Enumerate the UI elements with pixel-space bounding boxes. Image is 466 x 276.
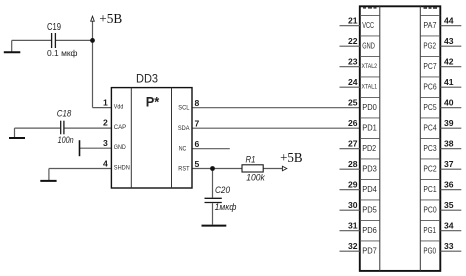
svg-text:PG2: PG2 [423,41,436,50]
svg-text:PC6: PC6 [423,82,437,91]
svg-text:PD1: PD1 [362,123,377,132]
svg-text:CAP: CAP [114,124,126,131]
svg-text:44: 44 [444,16,454,26]
svg-text:37: 37 [444,159,454,169]
svg-text:+5В: +5В [280,150,303,165]
svg-text:28: 28 [348,159,358,169]
svg-text:32: 32 [348,241,358,251]
svg-text:C19: C19 [47,22,61,33]
svg-text:Vdd: Vdd [114,103,124,110]
svg-text:41: 41 [444,77,454,87]
svg-text:42: 42 [444,57,454,67]
svg-text:SCL: SCL [178,105,190,112]
svg-text:SHDN: SHDN [114,164,130,171]
svg-text:8: 8 [195,98,200,108]
svg-text:5: 5 [195,159,200,169]
svg-text:22: 22 [348,36,358,46]
svg-text:1мкф: 1мкф [215,202,237,213]
svg-text:NC: NC [179,146,187,153]
svg-text:C20: C20 [215,185,231,196]
svg-text:29: 29 [348,180,358,190]
svg-text:PC0: PC0 [423,205,437,214]
svg-text:24: 24 [348,77,358,87]
svg-text:26: 26 [348,118,358,128]
svg-text:31: 31 [348,221,358,231]
svg-text:GND: GND [362,41,375,50]
svg-text:GND: GND [114,144,126,151]
svg-text:36: 36 [444,180,454,190]
svg-text:PC1: PC1 [423,185,437,194]
svg-text:PA7: PA7 [423,21,437,30]
svg-text:PD7: PD7 [362,246,377,255]
svg-text:0.1 мкф: 0.1 мкф [47,49,78,58]
svg-text:21: 21 [348,16,358,26]
svg-text:100k: 100k [246,173,266,184]
svg-text:PD0: PD0 [362,103,377,112]
svg-text:7: 7 [195,119,200,129]
svg-text:30: 30 [348,200,358,210]
svg-text:33: 33 [444,241,454,251]
svg-text:PC7: PC7 [423,62,437,71]
svg-text:PC5: PC5 [423,103,437,112]
svg-text:43: 43 [444,36,454,46]
svg-text:27: 27 [348,139,358,149]
svg-text:R1: R1 [246,155,256,166]
svg-text:PD5: PD5 [362,205,377,214]
svg-text:PD4: PD4 [362,185,377,194]
svg-text:2: 2 [103,118,108,128]
svg-text:34: 34 [444,221,454,231]
svg-text:PD3: PD3 [362,164,377,173]
svg-text:3: 3 [103,138,108,148]
svg-text:PC4: PC4 [423,123,437,132]
svg-text:VCC: VCC [362,21,374,30]
svg-text:23: 23 [348,57,358,67]
svg-text:DD3: DD3 [136,72,158,86]
svg-text:SDA: SDA [178,125,190,132]
svg-text:39: 39 [444,118,454,128]
svg-text:35: 35 [444,200,454,210]
svg-text:P*: P* [146,93,160,109]
svg-text:4: 4 [103,158,108,168]
svg-text:XTAL1: XTAL1 [362,83,378,90]
svg-text:25: 25 [348,98,358,108]
svg-text:40: 40 [444,98,454,108]
svg-text:PG1: PG1 [423,226,436,235]
svg-text:RST: RST [178,166,189,173]
svg-text:PD2: PD2 [362,144,376,153]
svg-text:1: 1 [103,97,108,107]
svg-text:PC3: PC3 [423,144,437,153]
svg-text:XTAL2: XTAL2 [362,63,378,70]
svg-text:PD6: PD6 [362,226,377,235]
svg-text:100n: 100n [58,135,74,146]
svg-text:+5В: +5В [99,11,122,26]
svg-text:C18: C18 [57,108,72,119]
svg-text:38: 38 [444,139,454,149]
svg-text:PG0: PG0 [423,246,436,255]
svg-text:PC2: PC2 [423,164,437,173]
svg-text:6: 6 [195,139,200,149]
